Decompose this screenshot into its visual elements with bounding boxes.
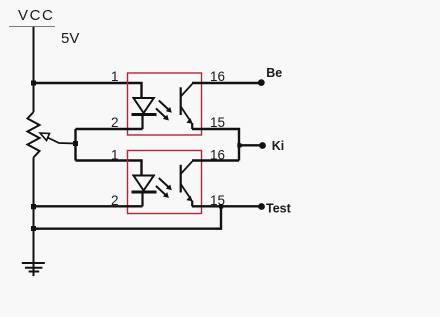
wire Ki tap [239,144,260,146]
potentiometer R1 body [28,112,40,158]
optocoupler U2 box [128,151,202,214]
power rail VCC [9,26,55,28]
U1 light arrows [156,101,172,121]
node junction dot wiper [73,141,78,146]
U2 LED D2 [132,176,157,207]
wire pin2 top opto [76,128,143,130]
potentiometer R1 wiper arrow [40,133,76,144]
wire pin1 bottom opto [76,161,142,176]
svg-text:5V: 5V [61,30,79,47]
U2 phototransistor Q2 [181,161,193,206]
wire left rail lower [33,158,35,277]
svg-text:2: 2 [111,115,119,130]
node junction dot pin15 tap [219,204,223,208]
svg-text:Be: Be [266,66,282,80]
node junction dot Ki tap [237,143,241,147]
wire pin15 bottom opto to Test [192,205,259,207]
ground [22,263,45,272]
svg-text:VCC: VCC [18,7,54,24]
wire return to ground rail [34,206,222,228]
U2 light arrows [156,178,172,198]
wire pin1 top opto [34,83,142,98]
svg-text:1: 1 [111,69,119,84]
svg-text:Ki: Ki [272,139,285,153]
wire pin16 bottom opto [192,159,239,161]
wire pin16 top opto to Be [192,82,259,84]
node Be dot [258,79,265,86]
svg-text:15: 15 [210,115,225,130]
wire pin2 bottom opto [34,205,143,207]
node Test dot [258,203,265,210]
node junction dot VCC tap [31,81,36,86]
U1 phototransistor Q1 [181,84,193,129]
wire left rail upper [33,27,35,112]
U1 LED D1 [132,98,157,129]
optocoupler U1 box [128,73,202,135]
svg-text:1: 1 [111,148,119,163]
svg-text:Test: Test [266,202,292,216]
node Ki dot [259,142,266,149]
svg-text:16: 16 [210,69,225,84]
node junction dot pin2 bottom [31,204,36,209]
wire pin15 top opto to bracket [192,129,239,161]
wire wiper bus [74,129,76,161]
node junction dot return [31,226,36,231]
